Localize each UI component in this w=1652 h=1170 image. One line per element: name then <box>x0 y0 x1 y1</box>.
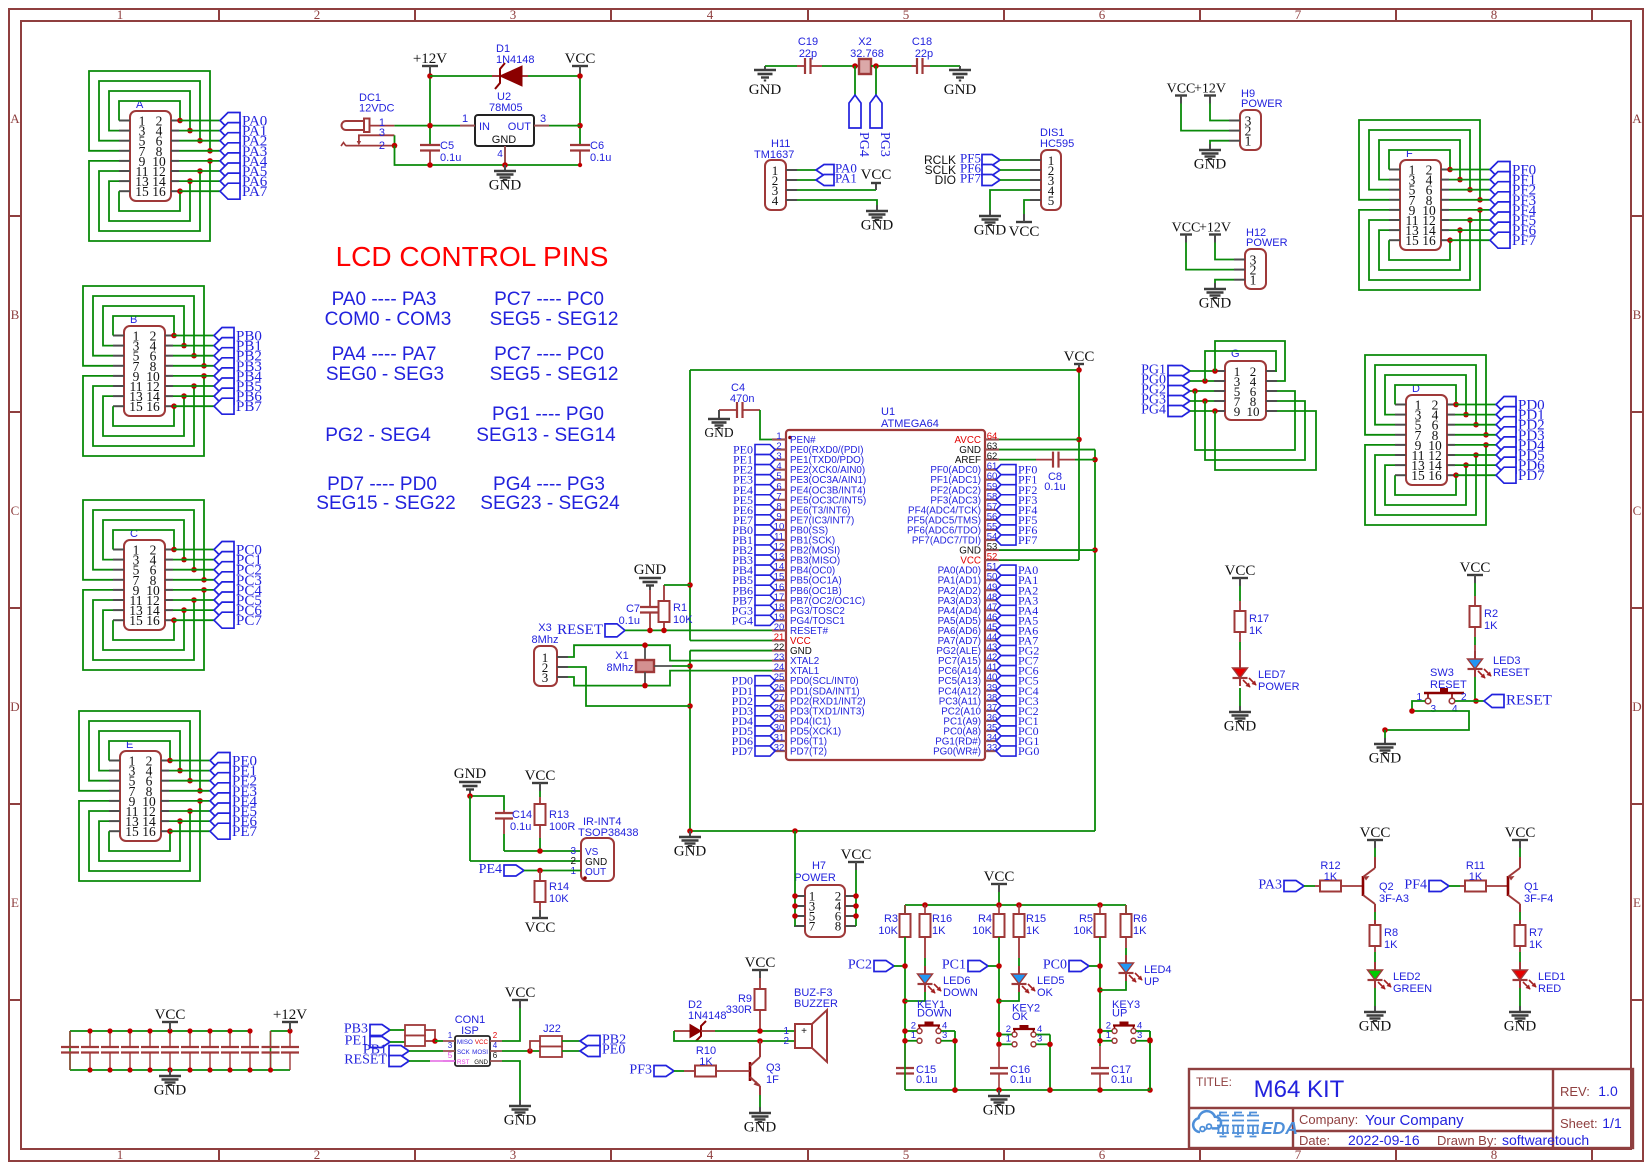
wire pin11 to pin12 net PC5 <box>93 597 197 660</box>
svg-text:E: E <box>1633 895 1641 910</box>
net flag PF6 U1 pin55 <box>996 523 1037 537</box>
svg-text:1K: 1K <box>932 925 946 937</box>
net flag PF1 <box>1490 172 1536 189</box>
svg-text:1K: 1K <box>1249 625 1263 637</box>
net flag PF4 <box>1404 878 1449 893</box>
VCC symbol buzzer <box>745 955 776 978</box>
connector X3 8Mhz <box>532 622 568 686</box>
capacitor C6 0.1u <box>570 140 611 165</box>
net flag PA0 <box>220 113 267 130</box>
net flag PD3 <box>1496 427 1545 444</box>
svg-text:MOSI: MOSI <box>472 1049 488 1056</box>
svg-text:10K: 10K <box>878 925 898 937</box>
wire pin1 to pin2 net PB0 <box>113 316 177 338</box>
wire to net flag PB5 <box>173 385 214 387</box>
svg-text:6: 6 <box>1099 7 1106 22</box>
wire LED3 to reset node <box>1473 677 1479 704</box>
wire X2 to C18 <box>871 63 917 69</box>
net flag PC6 U1 pin41 <box>996 664 1039 678</box>
net flag PC7 U1 pin42 <box>996 654 1039 668</box>
wire to net flag PC5 <box>173 599 214 601</box>
svg-text:3: 3 <box>1430 704 1436 715</box>
wire pin9 to pin10 net PC4 <box>83 587 207 670</box>
connector H7 POWER <box>794 860 856 937</box>
VCC symbol below DIS1 <box>1009 214 1040 240</box>
svg-text:VCC: VCC <box>745 955 776 971</box>
net flag PB2 <box>580 1033 626 1048</box>
wire U1 pin21 VCC <box>690 640 772 642</box>
svg-text:Date:: Date: <box>1299 1133 1330 1148</box>
svg-text:PC0: PC0 <box>1043 958 1067 973</box>
wire pin9 to pin10 net PF4 <box>1359 207 1483 290</box>
svg-text:22p: 22p <box>799 48 817 60</box>
svg-text:1: 1 <box>117 7 124 22</box>
wire to net flag PB0 <box>173 335 214 337</box>
capacitor bank C3 <box>101 1028 119 1072</box>
svg-text:GND: GND <box>1199 296 1232 312</box>
VCC symbol LED3 <box>1460 560 1491 583</box>
wire to net flag PF0 <box>1449 169 1490 171</box>
net flag PC0 U1 pin35 <box>996 724 1039 738</box>
diode D2 1N4148 <box>674 999 727 1041</box>
svg-text:RESET: RESET <box>1506 693 1552 709</box>
wire to net flag PA3 <box>179 150 220 152</box>
ground symbol IR <box>454 766 487 796</box>
ground symbol H11 <box>861 205 894 234</box>
svg-text:PE7: PE7 <box>232 824 258 840</box>
wire GND rail to H7 odd pins <box>792 831 798 926</box>
net flag PD6 <box>1496 457 1545 474</box>
connector H11 TM1637 <box>754 138 797 210</box>
svg-text:PF7: PF7 <box>960 171 981 186</box>
ground symbol cap bank <box>154 1070 187 1099</box>
net flag PD4 U1 pin29 <box>732 714 775 728</box>
svg-text:DIO: DIO <box>935 173 956 187</box>
crystal X2 32.768 <box>850 36 884 74</box>
wire XTAL1 net: X3 pin3, X1 bottom, U1 pin24 <box>568 671 772 689</box>
wire to net flag PB2 <box>173 355 214 357</box>
ground symbol CON1 <box>504 1100 537 1129</box>
wire to net flag PD5 <box>1455 454 1496 456</box>
net flag PD2 U1 pin27 <box>732 694 775 708</box>
net flag PA0 U1 pin51 <box>996 563 1038 577</box>
svg-text:LED2: LED2 <box>1393 971 1421 983</box>
regulator U2 78M05 <box>460 91 549 165</box>
wire pin3 to pin4 net PD1 <box>1385 375 1469 417</box>
net flag PG3 (rotated) <box>870 95 892 157</box>
svg-text:32.768: 32.768 <box>850 48 884 60</box>
svg-text:1K: 1K <box>1384 939 1398 951</box>
svg-text:12VDC: 12VDC <box>359 103 395 115</box>
svg-text:R8: R8 <box>1384 927 1398 939</box>
net flag PA6 U1 pin45 <box>996 623 1038 637</box>
transistor Q2 PNP <box>1363 848 1409 925</box>
wire R1 top to VCC rail <box>664 584 690 586</box>
svg-text:0.1u: 0.1u <box>510 821 531 833</box>
svg-text:PF4: PF4 <box>1404 878 1427 893</box>
svg-text:R6: R6 <box>1133 913 1147 925</box>
svg-text:A: A <box>1632 111 1642 126</box>
net flag PE2 U1 pin4 <box>733 463 775 477</box>
svg-text:SEG13 - SEG14: SEG13 - SEG14 <box>476 425 616 446</box>
net flag PF5 <box>960 151 1000 166</box>
capacitor C7 0.1u <box>619 590 660 630</box>
svg-text:RESET: RESET <box>557 622 603 638</box>
net flag PF3 <box>629 1063 674 1078</box>
wire PE4 to IR pin1 OUT <box>524 868 581 874</box>
net flag PB2 <box>214 348 262 365</box>
ground symbol GND regulator <box>489 165 522 194</box>
LED5 OK <box>1012 937 1065 999</box>
svg-text:0.1u: 0.1u <box>1044 481 1065 493</box>
net flag PD5 <box>1496 447 1545 464</box>
svg-text:LED5: LED5 <box>1037 975 1065 987</box>
svg-text:4: 4 <box>707 1147 714 1162</box>
wire pin13 to pin14 net PD6 <box>1385 462 1469 505</box>
wire pin1 to pin2 net PF0 <box>1389 150 1453 172</box>
wire to net flag PF7 <box>1449 239 1490 241</box>
capacitor bank C9 <box>221 1028 239 1072</box>
net flag PE2 <box>210 773 257 790</box>
wire to net flag PA0 <box>179 120 220 122</box>
connector D <box>1395 383 1455 485</box>
svg-text:VCC: VCC <box>475 1039 489 1046</box>
svg-text:PC7 ---- PC0: PC7 ---- PC0 <box>494 344 604 365</box>
push button KEY1 DOWN <box>911 999 952 1043</box>
connector H12 POWER <box>1234 227 1288 289</box>
wire pin7 to pin8 net PF3 <box>1359 120 1483 203</box>
wire GND to IR pin2 <box>470 796 581 861</box>
wire PC1 vertical <box>988 937 1002 1046</box>
ground symbol above C7 <box>634 562 667 590</box>
svg-text:3F-F4: 3F-F4 <box>1524 893 1553 905</box>
svg-text:15: 15 <box>129 613 143 628</box>
ground symbol below U1 <box>674 831 707 860</box>
svg-text:LED6: LED6 <box>943 975 971 987</box>
wire to net flag PE4 <box>169 800 210 802</box>
wire to net flag PF6 <box>1449 229 1490 231</box>
wire pin15 to pin16 net PF7 <box>1389 237 1453 260</box>
resistor R5 10K <box>1073 905 1105 937</box>
svg-text:15: 15 <box>125 824 139 839</box>
net flag PB0 U1 pin10 <box>732 523 775 537</box>
VCC symbol H9 <box>1167 82 1196 104</box>
svg-text:RED: RED <box>1538 983 1561 995</box>
resistor R6 1K <box>1121 905 1148 937</box>
wire to CON1 pin1 MISO <box>435 1040 443 1042</box>
svg-text:1: 1 <box>117 1147 124 1162</box>
svg-text:SEG5 - SEG12: SEG5 - SEG12 <box>490 309 619 330</box>
svg-text:GND: GND <box>1504 1019 1537 1035</box>
wire to net flag PD6 <box>1455 464 1496 466</box>
svg-text:SW3: SW3 <box>1430 667 1454 679</box>
wire pin1 to pin2 net PD0 <box>1395 385 1459 407</box>
svg-text:TM1637: TM1637 <box>754 149 794 161</box>
wire pin7 to pin8 net PB3 <box>83 286 207 369</box>
resistor Q2 emitter R <box>1370 925 1399 962</box>
title block <box>1189 1069 1633 1148</box>
net flag PE7 <box>210 823 258 840</box>
crystal X1 8Mhz <box>607 645 672 685</box>
wire pin5 to pin6 net PC2 <box>93 510 197 573</box>
svg-text:C6: C6 <box>590 140 604 152</box>
svg-text:GND: GND <box>634 562 667 578</box>
wire to net flag PB4 <box>173 375 214 377</box>
LED7 POWER (red) <box>1233 660 1300 693</box>
svg-text:C14: C14 <box>512 809 532 821</box>
wire pin5 to pin6 net PE2 <box>89 721 193 784</box>
connector G <box>1214 348 1277 420</box>
svg-text:GND: GND <box>983 1103 1016 1119</box>
svg-text:PC7: PC7 <box>236 613 262 629</box>
wire pin3 to pin4 net PA1 <box>109 91 193 133</box>
svg-text:VCC: VCC <box>1167 82 1196 97</box>
svg-text:R1: R1 <box>673 602 687 614</box>
svg-text:GND: GND <box>744 1120 777 1136</box>
wire to net flag PE2 <box>169 780 210 782</box>
svg-text:C7: C7 <box>626 603 640 615</box>
net flag PF2 U1 pin59 <box>996 483 1037 497</box>
svg-text:8Mhz: 8Mhz <box>532 634 559 646</box>
wire to net flag PF3 <box>1449 199 1490 201</box>
capacitor C5 0.1u <box>420 140 461 165</box>
wire to net flag PF2 <box>1449 189 1490 191</box>
wires KEY3 contacts <box>1097 1028 1153 1093</box>
wire H11 pin1 to PA0 <box>797 169 816 171</box>
svg-text:Q3: Q3 <box>766 1062 781 1074</box>
wire VCC down through C6 <box>577 73 583 145</box>
wire pin13 to pin14 net PB6 <box>103 393 187 436</box>
wire pin1 to pin2 net PA0 <box>119 101 183 123</box>
net flag PE0 U1 pin2 <box>733 443 775 457</box>
resistor R15 1K <box>1014 905 1047 937</box>
svg-text:10K: 10K <box>1073 925 1093 937</box>
VCC rail keys <box>905 892 1126 914</box>
svg-text:9: 9 <box>1234 404 1241 419</box>
svg-text:RESET: RESET <box>1430 679 1467 691</box>
svg-text:7: 7 <box>809 919 816 934</box>
wire to net flag PE0 <box>169 760 210 762</box>
svg-text:1K: 1K <box>1026 925 1040 937</box>
svg-text:B: B <box>11 307 20 322</box>
svg-text:RESET: RESET <box>344 1053 387 1068</box>
svg-text:PA3: PA3 <box>1258 878 1282 893</box>
svg-text:0.1u: 0.1u <box>440 152 461 164</box>
resistor R10 1K <box>674 1045 750 1077</box>
capacitor bank C8 <box>201 1028 219 1072</box>
transistor Q3 1F <box>750 1041 781 1095</box>
net flag PB3 U1 pin13 <box>732 553 775 567</box>
svg-text:GND: GND <box>1224 719 1257 735</box>
net flag PA5 U1 pin46 <box>996 613 1038 627</box>
svg-text:PG0: PG0 <box>1018 744 1039 758</box>
resistor R16 1K <box>920 905 953 937</box>
net flag PC5 U1 pin40 <box>996 674 1039 688</box>
net flag PA0 <box>816 161 857 176</box>
net flag PE0 <box>210 753 257 770</box>
svg-text:+: + <box>801 1026 807 1037</box>
wire to net flag PD3 <box>1455 434 1496 436</box>
wire pin11 to pin12 net PD5 <box>1375 452 1479 515</box>
wire X3 pin2 to GND <box>568 667 690 706</box>
svg-text:PF3: PF3 <box>629 1063 652 1078</box>
net flag PF0 <box>1490 162 1536 179</box>
wire pin1 to pin2 net PE0 <box>109 741 173 763</box>
svg-text:8: 8 <box>835 919 842 934</box>
svg-text:PD7: PD7 <box>732 744 753 758</box>
wire SW3 to GND loop <box>1382 701 1469 738</box>
wire to net flag PF1 <box>1449 179 1490 181</box>
svg-text:TSOP38438: TSOP38438 <box>578 827 639 839</box>
wire VCC to H12 pin2 <box>1186 243 1234 270</box>
net flag PE3 <box>210 783 257 800</box>
svg-text:GND: GND <box>504 1113 537 1129</box>
ground symbol H9 <box>1194 144 1227 173</box>
svg-text:B: B <box>1633 307 1642 322</box>
svg-text:POWER: POWER <box>794 872 836 884</box>
wire pin15 to pin16 net PA7 <box>119 188 183 211</box>
wire PC2 vertical <box>894 937 908 1046</box>
net flag PB6 <box>214 388 262 405</box>
ground symbol LED7 <box>1224 706 1257 735</box>
junctions cap bank <box>167 1028 292 1072</box>
svg-text:2: 2 <box>783 1036 789 1047</box>
svg-text:PC7 ---- PC0: PC7 ---- PC0 <box>494 289 604 310</box>
ground symbol right of C18 <box>944 66 977 98</box>
svg-text:16: 16 <box>1422 233 1436 248</box>
net flag PG2 U1 pin43 <box>996 644 1039 658</box>
ground symbol keys <box>983 1090 1016 1119</box>
svg-text:10: 10 <box>1247 404 1260 419</box>
svg-text:5: 5 <box>1048 193 1055 208</box>
svg-text:PC2: PC2 <box>848 958 872 973</box>
svg-text:470n: 470n <box>730 393 754 405</box>
net flag PG2 <box>1141 383 1190 398</box>
VCC symbol H7 <box>841 847 872 870</box>
VCC symbol CON1 <box>505 985 536 1008</box>
svg-text:H7: H7 <box>812 860 826 872</box>
wire VCC rail top of U1 <box>687 367 1082 640</box>
VCC power symbol above U1 <box>1064 349 1095 371</box>
wire pin5 to pin6 net PD2 <box>1375 365 1479 428</box>
wire +12V down through C5 node <box>427 73 433 145</box>
svg-text:PD7(T2): PD7(T2) <box>790 747 827 758</box>
wires KEY1 contacts <box>902 1028 958 1093</box>
wire to net flag PD2 <box>1455 424 1496 426</box>
ground rail below U1 <box>687 651 1095 834</box>
capacitor bank C10 <box>241 1028 259 1072</box>
wire pin11 to pin12 net PA5 <box>99 168 203 231</box>
svg-text:GND: GND <box>454 766 487 782</box>
net flag PA1 <box>816 171 857 186</box>
capacitor bank C4 <box>121 1028 139 1072</box>
wire pin7 to pin8 net PE3 <box>79 711 203 794</box>
svg-text:PA7: PA7 <box>242 184 268 200</box>
wire to net flag PA2 <box>179 140 220 142</box>
capacitor C18 22p <box>912 36 934 74</box>
svg-text:GND: GND <box>489 178 522 194</box>
svg-text:LED4: LED4 <box>1144 964 1172 976</box>
net flag PA2 <box>220 133 267 150</box>
+12V symbol cap bank <box>273 1007 307 1030</box>
svg-text:3F-A3: 3F-A3 <box>1379 893 1409 905</box>
wire pin9 to pin10 net PE4 <box>79 798 203 881</box>
svg-text:10K: 10K <box>673 614 693 626</box>
wire to net flag PC1 <box>173 559 214 561</box>
wire pin3 to pin4 net PC1 <box>103 520 187 562</box>
net flag PF7 U1 pin54 <box>996 533 1037 547</box>
capacitor C4 470n <box>719 382 760 418</box>
net flag PF4 U1 pin57 <box>996 503 1037 517</box>
svg-text:VCC: VCC <box>1460 560 1491 576</box>
capacitor bank +12V <box>262 1031 280 1070</box>
svg-text:4: 4 <box>497 149 503 160</box>
net flag PD3 U1 pin28 <box>732 704 775 718</box>
net flag PE1 <box>210 763 257 780</box>
wire PC0 vertical <box>1089 937 1103 1046</box>
svg-text:R13: R13 <box>549 809 569 821</box>
VCC symbol Q1 <box>1505 825 1536 848</box>
net flag PA6 <box>220 173 268 190</box>
LED6 DOWN <box>918 937 978 999</box>
resistor Q1 base R <box>1449 860 1508 892</box>
svg-text:16: 16 <box>1428 468 1442 483</box>
svg-text:ATMEGA64: ATMEGA64 <box>881 418 939 430</box>
wire C4 to U1 pin1 PEN <box>760 410 772 440</box>
svg-text:1K: 1K <box>1324 871 1338 883</box>
LED3 RESET (blue) <box>1468 651 1530 679</box>
net flag PF2 <box>1490 182 1536 199</box>
wire LED6 to key column <box>905 992 925 1001</box>
svg-text:POWER: POWER <box>1241 98 1283 110</box>
wire pin13 to pin14 net PA6 <box>109 178 193 221</box>
svg-text:LED3: LED3 <box>1493 655 1521 667</box>
capacitor C8 0.1u on AREF <box>999 452 1095 493</box>
wire to net flag PB7 <box>173 405 214 407</box>
wire U1 pin22 GND <box>690 650 772 652</box>
svg-text:VCC: VCC <box>1505 825 1536 841</box>
svg-text:VCC: VCC <box>1064 349 1095 365</box>
net flag PA1 U1 pin50 <box>996 573 1038 587</box>
VCC symbol keys <box>984 869 1015 892</box>
svg-text:PE0: PE0 <box>602 1043 625 1058</box>
svg-text:GND: GND <box>154 1083 187 1099</box>
svg-text:78M05: 78M05 <box>489 102 523 114</box>
wire J22 to PE0 <box>562 1050 580 1052</box>
wire to net flag PD4 <box>1455 444 1496 446</box>
wire pin7 to pin8 net PA3 <box>89 71 213 154</box>
wire to net flag PB3 <box>173 365 214 367</box>
net flag PA3 <box>1258 878 1304 893</box>
svg-text:PG4: PG4 <box>856 132 871 157</box>
wire X2 pin1 down to PG4 flag <box>854 66 856 95</box>
wire pin9 to pin10 net PB4 <box>83 373 207 456</box>
svg-text:1K: 1K <box>1484 620 1498 632</box>
wire to net flag PD0 <box>1455 404 1496 406</box>
svg-text:VCC: VCC <box>861 167 892 183</box>
wire SW3 pin2 to RESET flag <box>1455 700 1484 702</box>
resistor Q1 emitter R <box>1515 925 1544 962</box>
svg-text:POWER: POWER <box>1246 237 1288 249</box>
net flag PD7 U1 pin32 <box>732 744 775 758</box>
svg-text:0.1u: 0.1u <box>590 152 611 164</box>
svg-text:2022-09-16: 2022-09-16 <box>1348 1132 1420 1148</box>
svg-text:PA1: PA1 <box>835 171 857 186</box>
svg-text:PA0 ---- PA3: PA0 ---- PA3 <box>332 289 437 310</box>
net flag PA5 <box>220 163 267 180</box>
wire LED2 to GND <box>1374 988 1376 1006</box>
svg-text:33: 33 <box>987 743 998 754</box>
